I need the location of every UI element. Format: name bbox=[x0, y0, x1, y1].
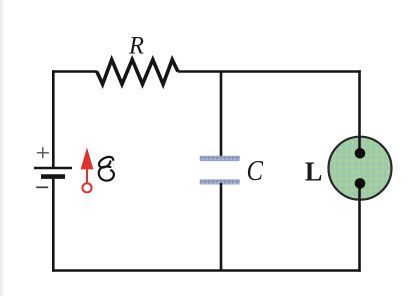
wire: left rail upper segment bbox=[52, 70, 55, 168]
wire: top rail right segment bbox=[178, 70, 361, 73]
wire: stub inside lamp to top dot bbox=[358, 137, 361, 154]
svg-text:R: R bbox=[128, 33, 144, 60]
EMF direction arrow (red) bbox=[81, 148, 94, 193]
wire: middle branch upper segment bbox=[220, 71, 223, 158]
wire: left rail lower segment bbox=[52, 177, 55, 272]
resistor R bbox=[97, 60, 178, 85]
wire: stub inside lamp from bottom dot bbox=[358, 183, 361, 200]
lamp L (bulb body) bbox=[329, 137, 392, 200]
wire: right rail lower segment bbox=[358, 184, 361, 272]
battery minus terminal mark bbox=[36, 186, 48, 188]
battery plus terminal mark bbox=[37, 147, 49, 158]
battery (EMF source) bbox=[34, 168, 72, 177]
label EMF script-E bbox=[99, 157, 114, 181]
wire: middle branch lower segment bbox=[220, 183, 223, 271]
capacitor C bbox=[200, 156, 240, 185]
svg-text:C: C bbox=[247, 156, 264, 187]
lamp terminal dot bottom bbox=[355, 178, 366, 189]
wire: top rail left segment bbox=[52, 70, 97, 73]
wire: right rail upper segment bbox=[358, 70, 361, 153]
svg-text:L: L bbox=[305, 155, 323, 186]
lamp terminal dot top bbox=[355, 148, 366, 159]
wire: bottom rail bbox=[52, 269, 361, 272]
